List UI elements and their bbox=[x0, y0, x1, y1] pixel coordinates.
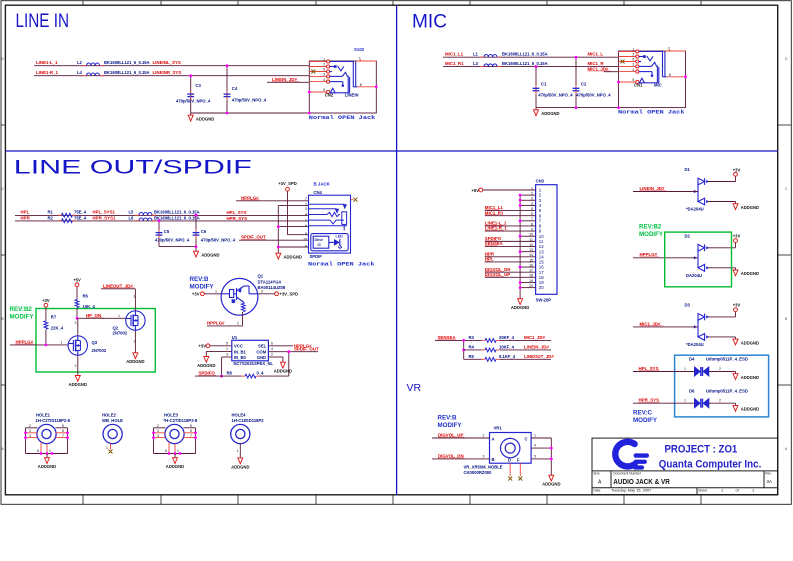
svg-text:LINEOUT_JD#: LINEOUT_JD# bbox=[524, 354, 554, 359]
svg-text:1: 1 bbox=[721, 488, 723, 493]
svg-text:5: 5 bbox=[226, 341, 228, 345]
svg-text:0_4: 0_4 bbox=[257, 371, 265, 376]
svg-text:ADDGND: ADDGND bbox=[196, 116, 214, 121]
svg-text:IN_B0: IN_B0 bbox=[234, 355, 247, 360]
svg-text:MODIFY: MODIFY bbox=[639, 231, 664, 238]
svg-text:+5V: +5V bbox=[471, 188, 479, 193]
inductor L3 bbox=[473, 61, 548, 67]
svg-text:R4: R4 bbox=[469, 344, 475, 349]
svg-text:6: 6 bbox=[323, 68, 325, 72]
transistor Q2 2N7002 bbox=[113, 311, 146, 336]
svg-text:MIC1_L: MIC1_L bbox=[588, 52, 604, 57]
svg-text:+5V: +5V bbox=[73, 278, 81, 283]
svg-text:REV:B: REV:B bbox=[438, 415, 457, 422]
cyan modify box D4 D6 bbox=[675, 355, 769, 417]
svg-text:3: 3 bbox=[157, 429, 159, 433]
svg-text:WB_HOLE: WB_HOLE bbox=[102, 418, 123, 423]
wire Q3 source to ground bbox=[75, 355, 78, 373]
svg-text:MIC1_R1: MIC1_R1 bbox=[445, 61, 464, 66]
resistor R1 bbox=[48, 210, 116, 217]
svg-text:SPDIF_OUT: SPDIF_OUT bbox=[241, 235, 266, 240]
svg-text:2: 2 bbox=[323, 63, 325, 67]
svg-text:LINE1-R_1: LINE1-R_1 bbox=[36, 70, 59, 75]
svg-text:Normal OPEN Jack: Normal OPEN Jack bbox=[618, 108, 685, 115]
ground ADDGND CN4 bbox=[276, 251, 302, 259]
svg-text:1: 1 bbox=[632, 48, 634, 52]
svg-text:S102: S102 bbox=[354, 47, 365, 52]
resistor R7 bbox=[44, 315, 64, 345]
svg-text:IC: IC bbox=[318, 243, 322, 247]
svg-text:C4: C4 bbox=[232, 86, 238, 91]
svg-text:R1: R1 bbox=[48, 210, 54, 215]
svg-text:COM: COM bbox=[256, 349, 266, 354]
capacitor C3 bbox=[176, 83, 211, 104]
SPDIF driver IC and LED inside CN4 bbox=[311, 234, 348, 251]
power +5V R6 bbox=[73, 278, 81, 300]
svg-text:1: 1 bbox=[49, 449, 51, 453]
svg-text:D4: D4 bbox=[689, 356, 695, 361]
power +3V_SPD Q1 right bbox=[258, 289, 298, 296]
svg-text:ADDGND: ADDGND bbox=[201, 252, 219, 257]
wire HPR_SYS to D6 bbox=[633, 398, 695, 404]
svg-text:HPL_SYS: HPL_SYS bbox=[227, 210, 247, 215]
svg-text:ADDGND: ADDGND bbox=[741, 375, 759, 380]
svg-text:+3V: +3V bbox=[192, 292, 200, 297]
svg-text:C2: C2 bbox=[581, 82, 587, 87]
svg-text:R2: R2 bbox=[48, 216, 54, 221]
section divider vertical bbox=[396, 5, 398, 495]
svg-text:Sheet: Sheet bbox=[698, 488, 707, 492]
svg-text:ADDGND: ADDGND bbox=[126, 359, 144, 364]
svg-text:HP_ON: HP_ON bbox=[86, 313, 101, 318]
svg-text:+3V: +3V bbox=[198, 344, 206, 349]
svg-text:BK1608LL121_6_0.15A: BK1608LL121_6_0.15A bbox=[154, 216, 200, 221]
svg-text:6: 6 bbox=[190, 429, 192, 433]
svg-text:HPPLG#: HPPLG# bbox=[241, 195, 259, 200]
potentiometer VR1 bbox=[464, 426, 532, 476]
svg-text:R5: R5 bbox=[469, 354, 475, 359]
wire ground bus C5 C6 bbox=[159, 245, 197, 249]
svg-text:MIC1_R1: MIC1_R1 bbox=[485, 210, 504, 215]
svg-text:470p/50V_NPO_4: 470p/50V_NPO_4 bbox=[201, 238, 236, 243]
svg-text:Document Number: Document Number bbox=[613, 472, 642, 476]
svg-text:5.1KF_4: 5.1KF_4 bbox=[499, 354, 516, 359]
power +3V_SPD CN4 bbox=[278, 181, 308, 235]
wire HPR net bbox=[15, 220, 309, 222]
mounting hole HOLE4 bbox=[231, 413, 265, 456]
power +3V U1 bbox=[198, 341, 231, 348]
svg-text:3: 3 bbox=[261, 289, 263, 293]
resistor R2 bbox=[48, 216, 116, 223]
svg-text:L1: L1 bbox=[473, 52, 479, 57]
inductor L2 bbox=[77, 60, 181, 66]
ground ADDGND MIC bbox=[534, 108, 560, 116]
ground ADDGND U1 GND bbox=[274, 360, 292, 374]
transistor Q3 2N7002 bbox=[68, 336, 107, 355]
svg-text:MIC1_JD#: MIC1_JD# bbox=[640, 321, 662, 326]
svg-text:8: 8 bbox=[165, 449, 167, 453]
svg-text:HPPLG#: HPPLG# bbox=[207, 320, 225, 325]
Quanta logo bbox=[615, 442, 649, 470]
svg-text:470p/50V_NPO_4: 470p/50V_NPO_4 bbox=[176, 99, 211, 104]
svg-text:8: 8 bbox=[37, 449, 39, 453]
svg-text:ADDGND: ADDGND bbox=[541, 111, 559, 116]
wire Q3 drain to HP_ON bbox=[75, 318, 78, 336]
inductor L5 bbox=[129, 210, 200, 216]
svg-text:MIC: MIC bbox=[654, 82, 662, 87]
svg-text:2: 2 bbox=[483, 434, 485, 438]
wire D6 to ground bbox=[709, 399, 759, 412]
svg-text:3: 3 bbox=[75, 321, 77, 325]
svg-text:R6: R6 bbox=[83, 294, 89, 299]
svg-text:SENSEA: SENSEA bbox=[438, 335, 457, 340]
ground ADDGND Q3 bbox=[69, 373, 87, 387]
wire ground bus LINE IN bbox=[191, 112, 310, 115]
svg-text:+3V: +3V bbox=[733, 234, 741, 239]
wire CN3 ground bus bbox=[519, 194, 522, 297]
wire LINEIN_JD# to D1 bbox=[633, 186, 698, 192]
ground ADDGND LINE IN bbox=[188, 113, 214, 121]
svg-text:HOLE3: HOLE3 bbox=[164, 413, 179, 418]
ground ADDGND D2 bbox=[708, 268, 759, 276]
svg-text:D2: D2 bbox=[685, 233, 691, 238]
svg-text:BK1608LL121_6_0.15A: BK1608LL121_6_0.15A bbox=[502, 52, 548, 57]
svg-text:2: 2 bbox=[134, 340, 136, 344]
wire MIC1_R1 net bbox=[443, 66, 619, 68]
ground ADDGND D3 bbox=[708, 337, 759, 345]
svg-text:*DA204U: *DA204U bbox=[686, 207, 704, 212]
svg-text:CN4: CN4 bbox=[314, 190, 323, 195]
svg-text:LINE IN: LINE IN bbox=[16, 11, 70, 32]
svg-text:REV:B2: REV:B2 bbox=[10, 306, 33, 313]
svg-text:3A: 3A bbox=[767, 479, 772, 484]
svg-text:1: 1 bbox=[215, 289, 217, 293]
svg-text:Normal OPEN Jack: Normal OPEN Jack bbox=[308, 261, 375, 268]
svg-text:3: 3 bbox=[305, 207, 307, 211]
svg-text:LINE1-L_1: LINE1-L_1 bbox=[36, 60, 58, 65]
svg-text:6: 6 bbox=[62, 429, 64, 433]
svg-text:1: 1 bbox=[61, 340, 63, 344]
svg-text:Drive: Drive bbox=[315, 238, 324, 242]
capacitor C6 bbox=[193, 229, 236, 243]
svg-text:10: 10 bbox=[303, 238, 307, 242]
wire LINE1-L_1 net bbox=[34, 65, 309, 67]
wire U1 IN_B1 to ground bbox=[206, 347, 232, 354]
wire DIGVOL_UP to CN3 pin 18 bbox=[485, 272, 520, 277]
wire HPPLG# to D2 bbox=[633, 252, 698, 258]
svg-text:6: 6 bbox=[305, 224, 307, 228]
svg-text:1: 1 bbox=[305, 218, 307, 222]
svg-text:+3V: +3V bbox=[733, 303, 741, 308]
svg-text:ADDGND: ADDGND bbox=[38, 464, 56, 469]
wire VR1 pins 1 4 5 to ground bbox=[531, 434, 553, 474]
svg-text:REV:C: REV:C bbox=[633, 410, 652, 417]
svg-text:2N7002: 2N7002 bbox=[92, 348, 107, 353]
wire MIC1_JD# bbox=[588, 66, 619, 71]
svg-text:7: 7 bbox=[62, 434, 64, 438]
svg-text:Q1: Q1 bbox=[258, 274, 264, 279]
wire HP_ON bbox=[76, 313, 126, 320]
svg-text:*DA204U: *DA204U bbox=[686, 342, 704, 347]
svg-text:MIC1_R: MIC1_R bbox=[588, 61, 605, 66]
svg-text:SENSEA: SENSEA bbox=[485, 241, 504, 246]
svg-text:*H-C2TID118P2-8: *H-C2TID118P2-8 bbox=[164, 418, 198, 423]
svg-text:D6: D6 bbox=[689, 389, 695, 394]
wire DIGVOL_DN to CN3 pin 17 bbox=[485, 267, 520, 272]
svg-text:HPPLG#: HPPLG# bbox=[16, 339, 34, 344]
svg-text:1: 1 bbox=[237, 449, 239, 453]
resistor R8 bbox=[227, 371, 265, 378]
wire R4 branch bbox=[464, 349, 482, 351]
svg-text:GND: GND bbox=[257, 355, 266, 360]
svg-text:3: 3 bbox=[134, 295, 136, 299]
wire C5 drop bbox=[158, 219, 161, 246]
svg-text:LINEIN: LINEIN bbox=[345, 92, 359, 97]
svg-text:SPDIF_OUT: SPDIF_OUT bbox=[294, 347, 319, 352]
svg-text:3: 3 bbox=[483, 454, 485, 458]
svg-text:VR1: VR1 bbox=[494, 426, 503, 431]
green modify box D2 bbox=[665, 232, 732, 287]
wire C1 drop bbox=[535, 65, 538, 107]
svg-text:AUDIO JACK & VR: AUDIO JACK & VR bbox=[613, 479, 670, 486]
svg-text:8: 8 bbox=[669, 73, 671, 77]
svg-text:SPDIFO: SPDIFO bbox=[199, 371, 216, 376]
svg-text:ADDGND: ADDGND bbox=[542, 482, 560, 487]
wire U1 COM SPDIF_OUT bbox=[268, 347, 319, 353]
svg-text:MODIFY: MODIFY bbox=[633, 417, 658, 424]
svg-text:DIGVOL_UP: DIGVOL_UP bbox=[485, 272, 510, 277]
svg-text:4: 4 bbox=[632, 68, 634, 72]
wire LINEOUT_JD# to Q2 drain bbox=[101, 283, 136, 311]
svg-text:R8: R8 bbox=[227, 371, 233, 376]
svg-text:2: 2 bbox=[271, 353, 273, 357]
svg-text:D: D bbox=[508, 458, 511, 463]
svg-text:+3V: +3V bbox=[42, 298, 50, 303]
svg-text:ADDGND: ADDGND bbox=[741, 205, 759, 210]
svg-text:DTA114YUA: DTA114YUA bbox=[258, 280, 282, 285]
svg-text:A: A bbox=[492, 437, 495, 442]
wire C4 drop bbox=[226, 64, 229, 113]
svg-text:Udump0511P_4_ESD: Udump0511P_4_ESD bbox=[706, 389, 748, 394]
svg-text:5: 5 bbox=[190, 424, 192, 428]
svg-text:REV:B2: REV:B2 bbox=[639, 224, 662, 231]
transistor Q1 DTA114YUA bbox=[221, 274, 286, 316]
wire HPPLG# to CN4 bbox=[236, 195, 309, 201]
connector CN1 MIC jack bbox=[617, 46, 687, 115]
svg-text:1: 1 bbox=[177, 449, 179, 453]
svg-text:VR: VR bbox=[407, 382, 422, 394]
svg-text:6: 6 bbox=[271, 341, 273, 345]
svg-text:Normal OPEN Jack: Normal OPEN Jack bbox=[309, 114, 376, 121]
svg-text:2N7002: 2N7002 bbox=[113, 331, 128, 336]
svg-text:ADDGND: ADDGND bbox=[741, 407, 759, 412]
resistor R3 bbox=[469, 335, 552, 342]
green modify box bbox=[36, 309, 155, 373]
svg-text:HPR_SYS: HPR_SYS bbox=[227, 216, 248, 221]
svg-text:1H-C2TID118P2-8: 1H-C2TID118P2-8 bbox=[36, 418, 71, 423]
svg-text:D1: D1 bbox=[685, 167, 691, 172]
ground ADDGND D1 bbox=[708, 202, 759, 210]
svg-text:C1: C1 bbox=[541, 82, 547, 87]
svg-text:7: 7 bbox=[190, 434, 192, 438]
svg-text:HOLE4: HOLE4 bbox=[232, 413, 247, 418]
svg-text:SPDIF: SPDIF bbox=[310, 254, 323, 259]
capacitor C5 bbox=[155, 229, 190, 243]
ground ADDGND Q2 bbox=[126, 351, 144, 365]
diode D6 Udump0511P_4_ESD bbox=[689, 389, 748, 408]
svg-text:C: C bbox=[525, 437, 528, 442]
wire C3 drop bbox=[189, 74, 192, 113]
svg-text:BK1608LL121_6_0.15A: BK1608LL121_6_0.15A bbox=[154, 210, 200, 215]
svg-text:+3V: +3V bbox=[733, 167, 741, 172]
date and sheet values bbox=[611, 488, 754, 493]
svg-text:7: 7 bbox=[305, 197, 307, 201]
svg-text:MIC1_L1: MIC1_L1 bbox=[445, 52, 464, 57]
wire LINE1-R_1 to CN3 pin 9 bbox=[485, 226, 520, 231]
svg-text:8: 8 bbox=[305, 244, 307, 248]
svg-text:3: 3 bbox=[29, 429, 31, 433]
svg-text:B: B bbox=[492, 457, 495, 462]
svg-text:3: 3 bbox=[323, 73, 325, 77]
svg-text:L5: L5 bbox=[129, 210, 135, 215]
svg-text:LINEINL_SYS: LINEINL_SYS bbox=[153, 60, 181, 65]
svg-text:2: 2 bbox=[237, 321, 239, 325]
svg-text:R7: R7 bbox=[51, 315, 57, 320]
svg-text:HPL_SYS1: HPL_SYS1 bbox=[93, 210, 116, 215]
svg-text:4: 4 bbox=[157, 434, 159, 438]
svg-text:REV:B: REV:B bbox=[190, 276, 209, 283]
wire R5 branch bbox=[464, 358, 482, 360]
resistor R5 bbox=[469, 354, 555, 361]
svg-text:75E_4: 75E_4 bbox=[74, 210, 87, 215]
svg-text:IN_B1: IN_B1 bbox=[234, 349, 247, 354]
ground ADDGND HOLE1 bbox=[38, 456, 56, 470]
wire LINE1-R_1 net bbox=[34, 75, 309, 77]
wire SPDIFO to CN3 pin 11 bbox=[485, 236, 520, 241]
svg-text:5: 5 bbox=[534, 454, 536, 458]
svg-text:L6: L6 bbox=[129, 216, 135, 221]
inductor L1 bbox=[473, 52, 548, 58]
svg-text:HPL_SYS: HPL_SYS bbox=[639, 366, 659, 371]
wire U1 SEL HPPLG# bbox=[268, 341, 312, 348]
svg-text:1: 1 bbox=[118, 314, 120, 318]
svg-text:SEL: SEL bbox=[258, 344, 267, 349]
wire GND net CN4 bbox=[277, 206, 309, 251]
svg-text:LINEIN_JD#: LINEIN_JD# bbox=[524, 344, 549, 349]
svg-text:CK0000RZ000: CK0000RZ000 bbox=[464, 470, 493, 475]
svg-text:Q3: Q3 bbox=[92, 340, 98, 345]
wire MIC1_L1 net bbox=[443, 56, 619, 58]
svg-text:ADDGND: ADDGND bbox=[197, 363, 215, 368]
svg-text:D3: D3 bbox=[685, 302, 691, 307]
svg-text:ADDGND: ADDGND bbox=[741, 340, 759, 345]
mounting hole HOLE1 bbox=[24, 413, 71, 456]
svg-text:Date:: Date: bbox=[593, 488, 601, 492]
mounting hole HOLE3 bbox=[152, 413, 198, 456]
wire MIC1_JD# to D3 bbox=[633, 321, 698, 327]
wire Q2 source to ground bbox=[134, 330, 136, 350]
wire C6 drop bbox=[195, 214, 198, 247]
wire C2 drop bbox=[575, 56, 578, 108]
svg-text:B JACK: B JACK bbox=[314, 181, 331, 186]
section divider horizontal bbox=[5, 150, 777, 152]
svg-text:9: 9 bbox=[305, 232, 307, 236]
wire HPL to CN3 pin 15 bbox=[485, 257, 520, 262]
wire HPR to CN3 pin 14 bbox=[485, 251, 520, 256]
inductor L4 bbox=[77, 70, 181, 76]
svg-text:4: 4 bbox=[534, 444, 536, 448]
svg-text:2: 2 bbox=[29, 424, 31, 428]
no-connect X CN4 pin5 bbox=[351, 198, 358, 202]
power +3V D3 bbox=[708, 303, 740, 317]
capacitor C4 bbox=[224, 86, 267, 103]
svg-text:8: 8 bbox=[360, 83, 362, 87]
wire SPDIF_OUT to CN4 bbox=[239, 235, 309, 241]
svg-text:470p/50V_NPO_4: 470p/50V_NPO_4 bbox=[538, 93, 573, 98]
svg-text:LINEOUT_JD#: LINEOUT_JD# bbox=[103, 283, 133, 288]
diode D3 *DA204U bbox=[685, 302, 710, 347]
svg-text:20KF_4: 20KF_4 bbox=[499, 335, 515, 340]
svg-text:20: 20 bbox=[539, 285, 544, 290]
wire HPL_SYS to D4 bbox=[633, 366, 695, 372]
diode D1 *DA204U bbox=[685, 167, 710, 212]
wire DIGVOL_DN to VR1 bbox=[432, 453, 490, 459]
svg-text:BK1608LL121_6_0.15A: BK1608LL121_6_0.15A bbox=[104, 60, 150, 65]
svg-text:ADDGND: ADDGND bbox=[741, 271, 759, 276]
svg-text:C3: C3 bbox=[196, 83, 202, 88]
svg-text:Quanta Computer Inc.: Quanta Computer Inc. bbox=[659, 459, 762, 471]
svg-text:HPL: HPL bbox=[21, 210, 30, 215]
svg-text:BK1608LL121_6_0.15A: BK1608LL121_6_0.15A bbox=[104, 70, 150, 75]
wire HPL net bbox=[15, 214, 309, 216]
svg-text:MIC1_JD#: MIC1_JD# bbox=[588, 66, 610, 71]
ground ADDGND VR1 bbox=[542, 473, 560, 487]
svg-text:NC7S2031SPEX_NL: NC7S2031SPEX_NL bbox=[234, 361, 274, 366]
svg-text:U1: U1 bbox=[232, 335, 238, 340]
svg-text:MODIFY: MODIFY bbox=[190, 284, 215, 291]
svg-text:4: 4 bbox=[323, 78, 325, 82]
svg-text:Tuesday, May 15, 2007: Tuesday, May 15, 2007 bbox=[611, 488, 651, 493]
ground ADDGND HOLE3 bbox=[166, 456, 184, 470]
svg-text:LINE1-R_1: LINE1-R_1 bbox=[485, 226, 508, 231]
svg-text:22K_4: 22K_4 bbox=[51, 326, 64, 331]
svg-text:75E_4: 75E_4 bbox=[74, 216, 87, 221]
resistor R6 bbox=[75, 294, 95, 319]
svg-text:VR_XR50M_NOBLE: VR_XR50M_NOBLE bbox=[464, 464, 503, 469]
svg-text:ADDGND: ADDGND bbox=[69, 382, 87, 387]
svg-text:C5: C5 bbox=[164, 229, 170, 234]
diode D2 DA204U bbox=[685, 233, 710, 277]
power +3V D2 bbox=[708, 234, 740, 248]
svg-text:C6: C6 bbox=[201, 229, 207, 234]
svg-text:PROJECT : ZO1: PROJECT : ZO1 bbox=[665, 444, 738, 456]
ground ADDGND CN3 bbox=[511, 297, 529, 311]
wire MIC1_L1 to CN3 pin 5 bbox=[485, 205, 520, 210]
svg-text:470p/50V_NPO_4: 470p/50V_NPO_4 bbox=[576, 93, 611, 98]
svg-text:10K_4: 10K_4 bbox=[83, 304, 96, 309]
svg-text:2: 2 bbox=[75, 364, 77, 368]
svg-text:SW-20P: SW-20P bbox=[536, 298, 552, 303]
wire U1 IN_B0 to SPDIFO bbox=[220, 353, 232, 378]
svg-text:1: 1 bbox=[534, 434, 536, 438]
svg-text:HPL: HPL bbox=[485, 257, 494, 262]
svg-text:MODIFY: MODIFY bbox=[438, 422, 463, 429]
title block bbox=[592, 438, 778, 494]
svg-text:Udump0511P_4_ESD: Udump0511P_4_ESD bbox=[706, 356, 748, 361]
diode D4 Udump0511P_4_ESD bbox=[689, 356, 748, 376]
svg-text:1: 1 bbox=[106, 446, 108, 450]
svg-text:1: 1 bbox=[684, 367, 686, 371]
